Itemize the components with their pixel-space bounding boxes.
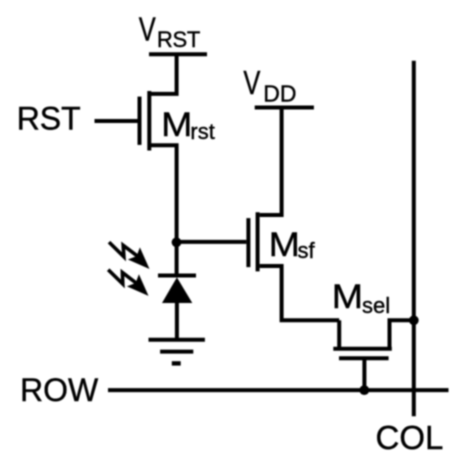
node on COL	[409, 315, 419, 325]
photon arrow 2	[108, 270, 148, 296]
node A (pixel node)	[172, 237, 182, 247]
wire RST gate	[95, 119, 138, 123]
svg-text:ROW: ROW	[20, 372, 99, 408]
power rail V_RST	[149, 52, 207, 56]
svg-text:V: V	[139, 11, 156, 48]
wire V_RST rail to M_rst drain	[151, 54, 177, 94]
svg-text:sel: sel	[362, 293, 390, 318]
transistor M_sf	[248, 212, 339, 320]
transistor M_sel	[333, 320, 414, 358]
wire V_DD rail to M_sf drain	[260, 108, 282, 216]
wire M_sel gate to ROW	[362, 358, 366, 390]
label V_DD	[243, 64, 296, 106]
photodiode D1	[158, 276, 196, 340]
svg-text:rst: rst	[190, 119, 214, 144]
svg-text:sf: sf	[298, 238, 316, 263]
label V_RST	[139, 11, 200, 52]
svg-text:V: V	[243, 64, 260, 101]
label M_rst	[161, 106, 215, 144]
power rail V_DD	[255, 106, 314, 110]
wire node to M_sf gate	[177, 240, 247, 244]
label M_sf	[269, 226, 316, 264]
svg-text:RST: RST	[17, 101, 81, 137]
ground	[149, 340, 205, 364]
bus COL	[412, 61, 416, 416]
label M_sel	[332, 278, 390, 318]
node on ROW	[359, 385, 369, 395]
svg-text:M: M	[332, 278, 363, 316]
transistor M_rst	[140, 91, 177, 242]
svg-text:M: M	[269, 226, 300, 264]
svg-text:M: M	[161, 106, 192, 144]
wire node to photodiode	[175, 242, 179, 275]
bus ROW	[108, 388, 449, 392]
svg-text:COL: COL	[376, 419, 444, 456]
svg-text:DD: DD	[263, 80, 296, 106]
svg-text:RST: RST	[157, 27, 200, 52]
photon arrow 1	[109, 242, 150, 269]
